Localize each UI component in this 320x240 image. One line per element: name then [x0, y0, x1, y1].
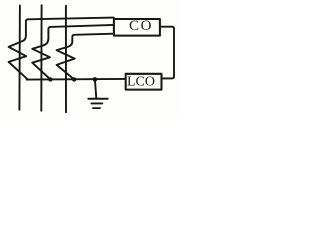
svg-text:LCO: LCO — [127, 74, 155, 89]
svg-text:CO: CO — [129, 18, 153, 34]
